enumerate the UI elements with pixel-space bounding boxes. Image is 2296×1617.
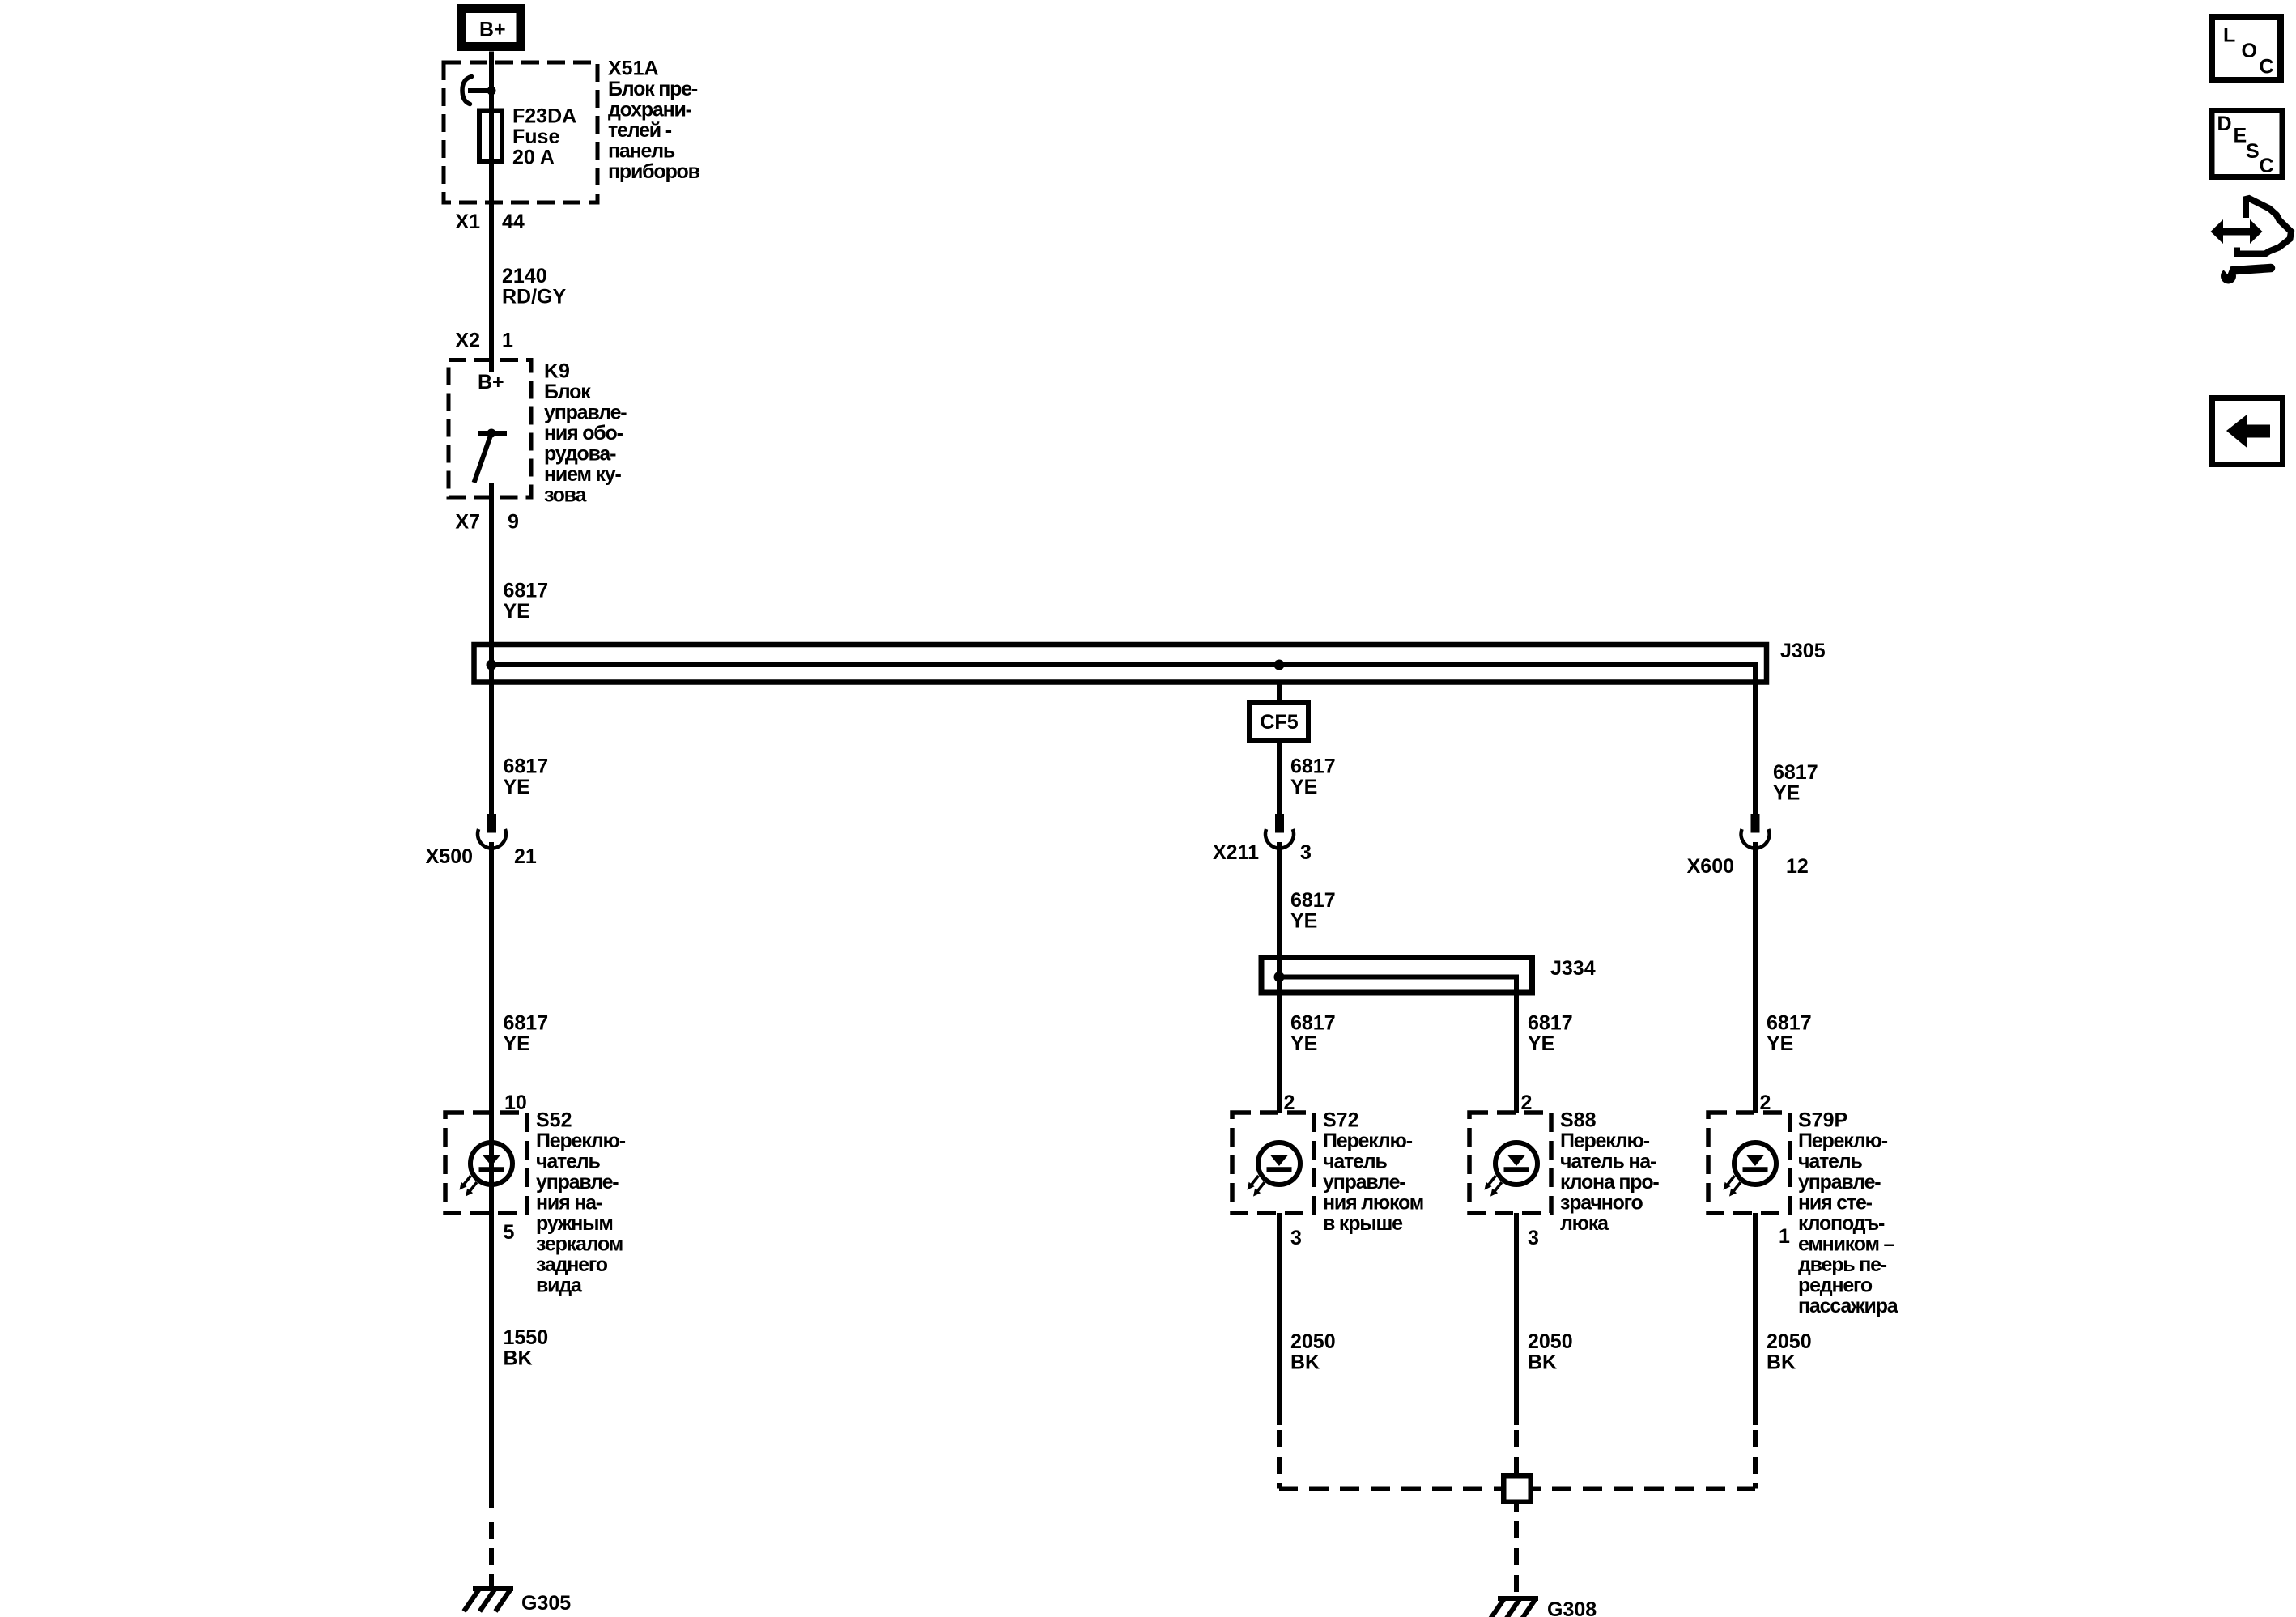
wire from J305 to CF5 <box>1277 682 1282 703</box>
switch S88 sunroof tilt with LED <box>1469 1113 1551 1213</box>
svg-text:B+: B+ <box>478 371 504 394</box>
svg-text:6817: 6817 <box>504 1012 549 1035</box>
svg-text:пассажира: пассажира <box>1798 1295 1899 1317</box>
svg-text:X600: X600 <box>1687 855 1734 878</box>
svg-text:1: 1 <box>502 330 513 352</box>
svg-text:ния люком: ния люком <box>1323 1192 1423 1215</box>
svg-text:21: 21 <box>514 845 537 868</box>
switch S79P window control with LED <box>1708 1113 1790 1213</box>
svg-text:CF5: CF5 <box>1260 711 1298 734</box>
svg-text:B+: B+ <box>479 19 506 41</box>
svg-text:чатель на-: чатель на- <box>1560 1151 1656 1173</box>
icon DESC box <box>2212 111 2282 177</box>
switch S52 mirror control with LED <box>445 1113 527 1213</box>
icon wrench <box>2221 269 2236 284</box>
svg-text:чатель: чатель <box>1323 1151 1387 1173</box>
splice pack J305 <box>474 645 1767 683</box>
fuse clip symbol <box>462 77 472 104</box>
svg-text:управле-: управле- <box>544 402 627 424</box>
svg-text:K9: K9 <box>544 360 570 383</box>
svg-text:YE: YE <box>504 600 530 623</box>
svg-text:клоподъ-: клоподъ- <box>1798 1212 1885 1235</box>
svg-text:X7: X7 <box>455 511 480 534</box>
splice box <box>1503 1475 1531 1502</box>
svg-text:2050: 2050 <box>1528 1330 1573 1353</box>
svg-text:6817: 6817 <box>1290 755 1336 778</box>
svg-text:Блок пре-: Блок пре- <box>608 78 698 100</box>
wire inner bus line J334 <box>1279 977 1516 996</box>
svg-text:6817: 6817 <box>1767 1012 1812 1035</box>
svg-text:Переклю-: Переклю- <box>1560 1130 1650 1152</box>
svg-text:S: S <box>2246 140 2260 163</box>
svg-text:6817: 6817 <box>1290 1012 1336 1035</box>
svg-text:3: 3 <box>1290 1227 1302 1249</box>
svg-text:дверь пе-: дверь пе- <box>1798 1253 1887 1276</box>
svg-text:X211: X211 <box>1213 841 1259 864</box>
wire 6817 YE from K9 to splice pack J305 <box>489 483 494 814</box>
ground G308 <box>1498 1596 1538 1601</box>
svg-text:YE: YE <box>1290 1032 1317 1055</box>
svg-text:Блок: Блок <box>544 381 591 403</box>
svg-text:зрачного: зрачного <box>1560 1192 1643 1215</box>
connector X500 pin 21 <box>487 814 496 833</box>
svg-text:1: 1 <box>1779 1225 1790 1248</box>
svg-text:приборов: приборов <box>608 160 700 183</box>
svg-text:YE: YE <box>504 776 530 798</box>
svg-text:G305: G305 <box>521 1592 571 1615</box>
svg-text:12: 12 <box>1786 855 1809 878</box>
wire from J334 to S88 <box>1514 995 1519 1113</box>
wire dashed S72 to ground bus <box>1277 1213 1282 1425</box>
node junction dot in fuse block <box>487 87 496 96</box>
svg-text:BK: BK <box>1528 1351 1557 1374</box>
svg-text:6817: 6817 <box>1528 1012 1573 1035</box>
svg-text:C: C <box>2260 56 2274 79</box>
icon LOC box <box>2212 17 2281 80</box>
svg-text:YE: YE <box>1528 1032 1554 1055</box>
svg-text:2140: 2140 <box>502 265 547 287</box>
wire inner bus line J305 <box>491 665 1755 685</box>
svg-text:YE: YE <box>504 1032 530 1055</box>
svg-text:RD/GY: RD/GY <box>502 286 567 309</box>
label CF5 <box>1249 703 1308 741</box>
icon door adjust <box>2237 198 2291 254</box>
icon back arrow box <box>2213 398 2283 465</box>
ground G305 <box>473 1586 513 1591</box>
svg-text:панель: панель <box>608 140 675 163</box>
svg-text:F23DA: F23DA <box>512 105 576 128</box>
wire 6817 YE to X600 <box>1753 684 1758 814</box>
svg-text:D: D <box>2217 113 2232 135</box>
svg-text:2050: 2050 <box>1767 1330 1812 1353</box>
wire 6817 YE to S79P <box>1753 842 1758 1113</box>
svg-text:3: 3 <box>1300 841 1312 864</box>
svg-text:6817: 6817 <box>1773 761 1818 784</box>
svg-text:Переклю-: Переклю- <box>1798 1130 1888 1152</box>
svg-text:20 A: 20 A <box>512 147 555 169</box>
node junction on J334 <box>1274 972 1285 982</box>
svg-text:S79P: S79P <box>1798 1109 1847 1132</box>
svg-text:X2: X2 <box>455 330 480 352</box>
svg-text:YE: YE <box>1767 1032 1793 1055</box>
relay contact in K9 <box>478 431 507 436</box>
svg-text:E: E <box>2234 125 2247 147</box>
svg-text:C: C <box>2260 155 2274 177</box>
svg-text:S88: S88 <box>1560 1109 1597 1132</box>
svg-text:6817: 6817 <box>1290 889 1336 912</box>
svg-text:YE: YE <box>1290 910 1317 933</box>
svg-text:чатель: чатель <box>536 1151 600 1173</box>
wire 6817 YE to X211 <box>1277 741 1282 814</box>
svg-text:X1: X1 <box>455 211 480 233</box>
svg-text:2050: 2050 <box>1290 1330 1336 1353</box>
wire dashed S79P to ground bus <box>1753 1213 1758 1425</box>
svg-text:вида: вида <box>536 1274 583 1297</box>
svg-text:S52: S52 <box>536 1109 572 1132</box>
svg-text:ния на-: ния на- <box>536 1192 602 1215</box>
svg-text:BK: BK <box>504 1347 533 1370</box>
wire dashed ground bus horizontal <box>1279 1487 1501 1491</box>
svg-text:Переклю-: Переклю- <box>536 1130 626 1152</box>
connector X211 pin 3 <box>1275 814 1284 833</box>
svg-text:BK: BK <box>1767 1351 1796 1374</box>
svg-text:емником –: емником – <box>1798 1233 1895 1256</box>
connector X600 pin 12 <box>1751 814 1760 833</box>
svg-text:L: L <box>2223 24 2235 47</box>
svg-text:J334: J334 <box>1550 957 1596 980</box>
svg-text:J305: J305 <box>1780 640 1826 662</box>
body control module K9 dashed box <box>449 360 531 498</box>
svg-text:S72: S72 <box>1323 1109 1358 1132</box>
svg-text:Fuse: Fuse <box>512 126 559 148</box>
svg-text:5: 5 <box>504 1221 515 1244</box>
svg-text:X51A: X51A <box>608 57 659 80</box>
fuse block X51A dashed box <box>444 62 597 202</box>
node B+ battery feed <box>461 9 521 47</box>
svg-text:YE: YE <box>1290 776 1317 798</box>
svg-text:X500: X500 <box>426 845 473 868</box>
svg-text:9: 9 <box>508 511 519 534</box>
wire 6817 YE to S52 <box>489 842 494 1508</box>
svg-text:1550: 1550 <box>504 1326 549 1349</box>
svg-text:телей -: телей - <box>608 119 672 142</box>
svg-text:чатель: чатель <box>1798 1151 1862 1173</box>
svg-text:3: 3 <box>1528 1227 1539 1249</box>
svg-text:6817: 6817 <box>504 755 549 778</box>
svg-text:реднего: реднего <box>1798 1274 1873 1297</box>
switch S72 sunroof control with LED <box>1232 1113 1314 1213</box>
svg-text:люка: люка <box>1560 1212 1609 1235</box>
svg-text:управле-: управле- <box>1323 1171 1405 1194</box>
svg-text:нием ку-: нием ку- <box>544 463 621 486</box>
wire dashed to G305 <box>489 1522 494 1589</box>
svg-text:рудова-: рудова- <box>544 443 616 466</box>
node junction on J305 left <box>487 660 497 670</box>
svg-text:управле-: управле- <box>1798 1171 1881 1194</box>
svg-text:зова: зова <box>544 484 588 507</box>
svg-text:ния сте-: ния сте- <box>1798 1192 1873 1215</box>
svg-text:ния обо-: ния обо- <box>544 422 623 445</box>
svg-text:6817: 6817 <box>504 580 549 602</box>
splice pack J334 <box>1261 958 1533 994</box>
svg-text:управле-: управле- <box>536 1171 619 1194</box>
node junction on J305 middle <box>1274 660 1285 670</box>
svg-text:G308: G308 <box>1547 1598 1597 1617</box>
wire dashed S88 to splice <box>1514 1213 1519 1425</box>
svg-text:клона про-: клона про- <box>1560 1171 1659 1194</box>
svg-text:дохрани-: дохрани- <box>608 99 692 121</box>
svg-text:зеркалом: зеркалом <box>536 1233 623 1256</box>
fuse F23DA 20 A <box>479 111 502 162</box>
svg-text:заднего: заднего <box>536 1253 608 1276</box>
svg-text:ружным: ружным <box>536 1212 613 1235</box>
icon double arrow <box>2217 228 2256 236</box>
wire stub into K9 <box>489 360 494 372</box>
svg-text:O: O <box>2242 40 2257 62</box>
wire from B+ into fuse block <box>489 52 494 360</box>
svg-text:BK: BK <box>1290 1351 1320 1374</box>
wire dashed splice to G308 <box>1514 1504 1519 1597</box>
svg-text:44: 44 <box>502 211 525 233</box>
svg-text:YE: YE <box>1773 782 1800 805</box>
svg-text:в крыше: в крыше <box>1323 1212 1403 1235</box>
svg-text:Переклю-: Переклю- <box>1323 1130 1413 1152</box>
wire 6817 YE to splice pack J334 <box>1277 842 1282 1113</box>
